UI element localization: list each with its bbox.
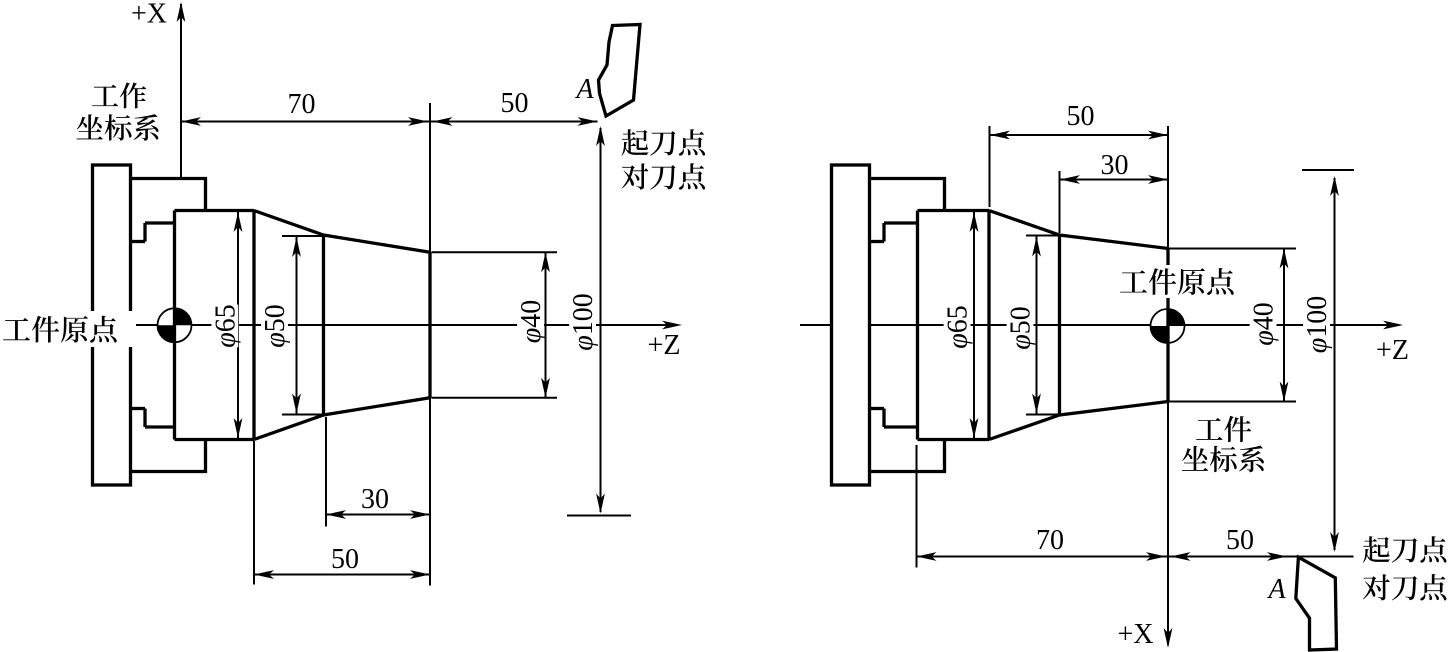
label phi65 (right) bbox=[944, 306, 971, 349]
extension line workpiece left (down) x=916.5 bbox=[916, 445, 918, 568]
phi65 dimension line (right) bbox=[973, 212, 975, 438]
svg-text:70: 70 bbox=[288, 89, 316, 120]
label: workpiece origin (left) bbox=[3, 316, 117, 343]
label: workpiece coordinate system line1 bbox=[1196, 416, 1251, 442]
dimension line 70 / 50 (top) bbox=[181, 121, 598, 123]
svg-text:50: 50 bbox=[1067, 101, 1095, 132]
label phi40 bbox=[517, 300, 544, 343]
+Z axis (right diagram) bbox=[800, 324, 1396, 326]
svg-text:φ65: φ65 bbox=[943, 305, 974, 349]
label: tool setting point (right) bbox=[1363, 574, 1446, 600]
label: work coordinate system line2 bbox=[77, 114, 159, 141]
label: tool start point (left) bbox=[622, 129, 706, 155]
dimension line 50 (top) bbox=[990, 134, 1168, 136]
dimension line 50 (bottom) + leader to text bbox=[1168, 556, 1354, 558]
phi40 dimension line (right) bbox=[1283, 249, 1285, 402]
extension line phi65 right x=254 bbox=[253, 441, 255, 585]
svg-text:φ100: φ100 bbox=[1302, 296, 1333, 354]
+X axis (left diagram) bbox=[180, 4, 182, 179]
workpiece end face bbox=[428, 252, 431, 397]
label: workpiece coordinate system line2 bbox=[1182, 446, 1264, 473]
phi50 dimension line (right) bbox=[1036, 237, 1038, 414]
dimension line 70 (bottom) bbox=[917, 556, 1169, 558]
svg-text:φ65: φ65 bbox=[210, 304, 241, 348]
workpiece end face bbox=[1166, 249, 1169, 402]
label phi50 (right) bbox=[1007, 307, 1034, 350]
svg-text:φ40: φ40 bbox=[516, 300, 547, 344]
svg-text:φ40: φ40 bbox=[1249, 302, 1280, 346]
workpiece phi65 cylinder bbox=[175, 209, 255, 212]
phi100 lower terminator bar bbox=[567, 515, 631, 517]
taper step line bbox=[322, 235, 325, 415]
phi65 dimension line bbox=[237, 212, 239, 438]
svg-text:φ50: φ50 bbox=[1006, 306, 1037, 350]
svg-text:+X: +X bbox=[1117, 619, 1153, 650]
phi100 dimension line bbox=[600, 128, 602, 512]
phi50 extension lines (right) bbox=[1026, 235, 1061, 237]
phi40 dimension line bbox=[545, 252, 547, 397]
svg-text:30: 30 bbox=[1101, 150, 1129, 181]
workpiece phi65 cylinder bbox=[918, 209, 990, 212]
label: work coordinate system line1 bbox=[92, 82, 146, 108]
white box under workpiece-origin label (right) bbox=[1114, 265, 1240, 298]
label phi100 (right) bbox=[1303, 295, 1330, 355]
chuck bottom jaw bbox=[131, 440, 206, 472]
svg-text:50: 50 bbox=[331, 544, 359, 575]
chuck top jaw bbox=[131, 179, 206, 211]
workpiece taper cone bbox=[989, 211, 1168, 249]
lathe chuck body bbox=[832, 165, 870, 485]
taper step line bbox=[1058, 235, 1061, 415]
workpiece origin symbol (right) bbox=[1151, 309, 1185, 343]
phi100 dimension line (right) bbox=[1334, 178, 1336, 550]
svg-text:+X: +X bbox=[131, 0, 167, 30]
chuck top jaw bbox=[870, 179, 945, 211]
lathe chuck body bbox=[93, 165, 131, 485]
svg-text:50: 50 bbox=[501, 88, 529, 119]
+X axis / end-face extension (right diagram) bbox=[1167, 126, 1169, 645]
svg-text:+Z: +Z bbox=[648, 330, 681, 361]
+Z axis (left diagram) bbox=[60, 324, 676, 326]
phi50 extension lines bbox=[282, 235, 325, 237]
svg-text:30: 30 bbox=[361, 484, 389, 515]
workpiece origin symbol (left) bbox=[158, 308, 192, 342]
svg-text:50: 50 bbox=[1226, 525, 1254, 556]
svg-text:φ50: φ50 bbox=[260, 304, 291, 348]
label: tool setting point (left) bbox=[622, 163, 705, 189]
label phi65 bbox=[211, 305, 238, 348]
svg-text:A: A bbox=[1266, 574, 1286, 605]
white box under workpiece-origin label bbox=[0, 311, 136, 347]
svg-text:+Z: +Z bbox=[1376, 335, 1409, 366]
svg-text:φ100: φ100 bbox=[568, 293, 599, 351]
workpiece taper cone bbox=[254, 211, 430, 253]
dimension line 30 (top) bbox=[1060, 179, 1168, 181]
dimension line 50 (bottom) bbox=[254, 574, 430, 576]
cutting tool (right diagram) bbox=[1296, 557, 1337, 650]
label phi40 (right) bbox=[1250, 303, 1277, 346]
extension line taper step (up) x=1059.5 bbox=[1059, 171, 1061, 233]
label: tool start point (right) bbox=[1363, 536, 1447, 562]
phi50 dimension line bbox=[296, 237, 298, 414]
extension line at workpiece end face x=430 bbox=[429, 103, 431, 586]
extension line taper step x=326 bbox=[325, 417, 327, 527]
label: workpiece origin (right) bbox=[1120, 268, 1234, 295]
cutting tool (left diagram) bbox=[599, 25, 641, 117]
svg-text:A: A bbox=[574, 74, 594, 105]
phi40 extension lines bbox=[432, 251, 558, 253]
phi40 extension lines (right) bbox=[1169, 248, 1296, 250]
svg-text:70: 70 bbox=[1036, 525, 1064, 556]
label phi50 bbox=[261, 305, 288, 348]
phi100 upper terminator bar bbox=[1302, 169, 1354, 171]
chuck bottom jaw bbox=[870, 440, 945, 472]
label phi100 bbox=[569, 292, 596, 352]
extension line phi65 right (up) x=989.5 bbox=[989, 126, 991, 207]
dimension line 30 (bottom) bbox=[326, 514, 430, 516]
